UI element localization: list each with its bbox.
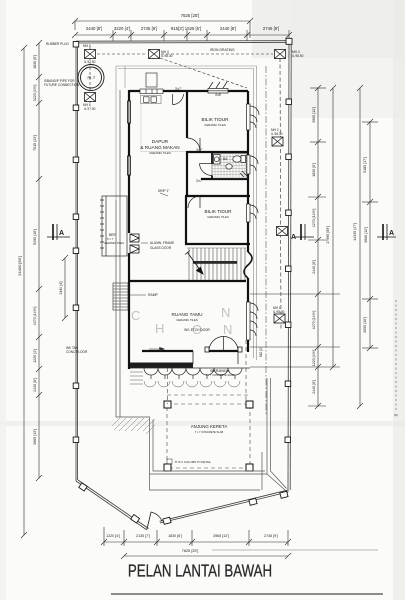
svg-text:5' x 7': 5' x 7' [107,237,114,241]
svg-text:BILIK TIDUR: BILIK TIDUR [204,209,232,214]
bed2 top wall [185,195,250,197]
svg-text:24400 [80']: 24400 [80'] [17,256,22,276]
svg-text:2440 [8']: 2440 [8'] [312,260,316,274]
svg-text:4'x8': 4'x8' [215,93,222,97]
svg-text:1220 [4']: 1220 [4'] [33,349,37,363]
glass door [130,234,139,253]
ruang tamu right windows [247,302,259,340]
svg-text:3965 [13']: 3965 [13'] [213,534,229,538]
svg-text:CERAMIC TILES: CERAMIC TILES [204,123,226,127]
svg-text:A: A [59,230,64,237]
svg-text:2135 [7']: 2135 [7'] [136,534,150,538]
svg-text:915[3'] 1525 [5']: 915[3'] 1525 [5'] [171,26,201,31]
bathroom tiled floor [212,154,247,179]
bed1 right windows [247,104,260,130]
svg-text:GLASS DOOR: GLASS DOOR [150,246,172,250]
curved niche right wall [244,252,252,278]
svg-text:BER: BER [109,233,116,237]
hatch paving [112,418,155,434]
svg-text:CERAMIC TILES: CERAMIC TILES [207,215,229,219]
sewer dash line left [90,47,273,103]
svg-text:3965 [13']: 3965 [13'] [33,429,37,445]
left dim line 24400 [21,45,27,538]
svg-text:2440 [8']: 2440 [8'] [220,26,236,31]
svg-text:A: A [291,234,296,241]
bottom dim line 1 [101,527,291,546]
apron paving outline [116,90,287,490]
manhole MH2 [272,137,283,146]
gate arc bottom [147,512,162,529]
svg-text:IL 98.30: IL 98.30 [271,132,283,136]
apron dash-dot line [265,66,267,415]
svg-text:CONC FLOOR: CONC FLOOR [66,350,88,354]
scan band mid [0,421,405,426]
svg-text:3'x7': 3'x7' [196,179,203,183]
porch BER left [100,196,127,256]
front wall ruang tamu [142,350,193,352]
eave overhang outline [116,66,257,360]
top wall [129,90,248,92]
stair arrow [185,251,203,275]
junction JH.2 [78,65,104,91]
svg-text:7 x 7 CONCRETE SLAB: 7 x 7 CONCRETE SLAB [195,430,224,434]
bath door [200,164,213,176]
svg-text:& RUANG MAKAN: & RUANG MAKAN [140,145,179,150]
section mark A right [295,224,314,240]
svg-text:2440 [4']: 2440 [4'] [59,281,63,294]
manhole MH4 [149,50,160,59]
porch wall slab [130,363,193,369]
svg-text:3050 [10']: 3050 [10'] [363,317,367,333]
beranda slab [130,351,250,368]
right dim line 4 [362,119,378,351]
svg-text:C: C [131,308,140,323]
svg-text:4270 [14½']: 4270 [14½'] [312,311,316,330]
scan wash left strip [0,0,6,600]
bath bottom wall [201,178,248,180]
svg-text:2745 [9']: 2745 [9'] [263,26,279,31]
bed2 right windows [247,204,259,222]
gate posts [131,515,171,525]
manhole MH6 [85,93,96,102]
svg-text:3'x7': 3'x7' [175,87,182,91]
right boundary fence [160,41,292,523]
bed2 door [188,196,200,208]
svg-text:RUANG TAMU: RUANG TAMU [171,312,203,317]
top dim line row2 [72,30,292,41]
svg-text:JH. 2: JH. 2 [87,76,95,80]
stairs [187,248,246,280]
watermark letters [131,305,232,337]
svg-text:N: N [221,305,230,320]
svg-text:W/1 ETCH DOOR: W/1 ETCH DOOR [184,328,210,332]
svg-text:610 [2']: 610 [2'] [259,347,263,357]
svg-text:PELAN LANTAI BAWAH: PELAN LANTAI BAWAH [128,562,272,581]
svg-text:5490 [18']: 5490 [18'] [33,229,37,245]
svg-text:3965 [13']: 3965 [13'] [312,107,316,123]
svg-text:1220 [4½']: 1220 [4½'] [312,350,316,367]
manhole MH2a [277,227,288,236]
bath top wall [187,151,248,153]
svg-text:IRON GRATING: IRON GRATING [210,48,235,52]
toilet [233,156,246,163]
manhole MH5 [85,50,96,59]
basin [214,155,233,170]
anjung columns [164,401,253,471]
svg-text:7625 [25']: 7625 [25'] [181,13,200,18]
svg-text:5185 [17']: 5185 [17'] [363,157,367,173]
svg-text:4270 [14½']: 4270 [14½'] [33,307,37,326]
column note [167,459,172,464]
svg-text:2440 [8']: 2440 [8'] [33,378,37,392]
svg-text:DRIP 1": DRIP 1" [158,189,169,193]
top dim line 7625 [72,18,253,38]
svg-text:1220 [4']: 1220 [4'] [106,534,120,538]
far right dashed line [395,300,397,410]
svg-text:7625 [25']: 7625 [25'] [182,549,199,553]
svg-text:MH 5: MH 5 [83,44,91,48]
kitchen door swing [173,94,184,105]
section mark A left [47,224,70,240]
bath right window [247,155,259,174]
left dim line segments [36,40,42,481]
svg-text:IL 98.30: IL 98.30 [161,54,173,58]
ramp [113,283,128,310]
svg-text:3'x7': 3'x7' [196,148,203,152]
svg-text:17995 [59']: 17995 [59'] [326,226,330,244]
svg-text:2745 [9']: 2745 [9'] [141,26,157,31]
right dim line 2 [330,85,336,370]
bottom dim line 2 [121,553,291,559]
title underline [111,593,383,595]
stair rail [193,261,237,264]
svg-text:IL 98.50: IL 98.50 [292,54,304,58]
bed2 left wall [185,196,187,244]
left wall lower [128,253,130,369]
left wall upper [128,90,130,233]
stair bottom wall [130,280,246,282]
bath wall separating [211,153,213,164]
svg-text:(6): (6) [394,413,398,417]
svg-text:3660 [12']: 3660 [12'] [364,227,368,243]
svg-text:FUTURE CONNECTION: FUTURE CONNECTION [44,83,80,87]
kitchen appliances [140,73,163,104]
svg-text:IL 97.50: IL 97.50 [84,60,96,64]
right dim line 1 [250,85,340,409]
bed2 bottom wall [185,243,250,245]
section mark A far right [377,224,396,240]
kitchen window left wall [128,101,131,175]
svg-text:7 x 7 CONCRETE SLAB: 7 x 7 CONCRETE SLAB [206,373,235,377]
right dim line 3 [357,85,363,409]
top dim labels [86,13,279,31]
svg-text:IL 97.00: IL 97.00 [84,107,96,111]
scan wash right of fence [292,0,405,118]
interior arrow kitchen->tamu [149,347,165,351]
svg-text:1830 [6']: 1830 [6'] [168,534,182,538]
fence posts left [73,42,87,492]
svg-text:1830 [6']: 1830 [6'] [33,55,37,69]
svg-text:RAMP: RAMP [148,293,159,297]
svg-text:H: H [155,321,164,336]
svg-text:4270 [14½']: 4270 [14½'] [312,209,316,228]
svg-text:2440 [8']: 2440 [8'] [86,26,102,31]
svg-text:RUBBER PLUG: RUBBER PLUG [46,42,69,46]
bed1/kitchen door arc [187,138,200,151]
bottom rule thin [212,549,378,551]
left boundary fence [76,41,289,530]
manhole MH3 [275,50,286,59]
short dim line left [62,255,68,321]
svg-text:3220 [4½']: 3220 [4½'] [33,85,37,102]
steps below beranda [144,381,240,387]
beranda-anjung dashes [168,340,247,404]
right wall [247,91,249,104]
svg-text:BILIK TIDUR: BILIK TIDUR [201,117,229,122]
svg-text:14335 [47']: 14335 [47'] [353,223,357,241]
svg-text:2440 [8']: 2440 [8'] [312,380,316,394]
svg-text:N: N [223,322,232,337]
sewer dash line right [280,58,281,330]
svg-text:CERAMIC TILES: CERAMIC TILES [104,241,124,245]
svg-text:IL 98.00: IL 98.00 [273,310,285,314]
svg-text:3220 [4']: 3220 [4'] [114,26,130,31]
scan wash right column [393,0,405,600]
front double door [205,337,242,353]
svg-text:CERAMIC TILES: CERAMIC TILES [149,151,171,155]
svg-text:ANJUNG KERETA: ANJUNG KERETA [191,424,228,429]
interior wall kitchen/bed1 [186,91,188,138]
svg-text:DAPUR: DAPUR [152,139,169,144]
manhole MH1 [274,314,285,323]
bottom dim labels [106,534,278,538]
svg-text:2745 [9']: 2745 [9'] [264,534,278,538]
svg-text:ALUMN. FRAME: ALUMN. FRAME [150,241,174,245]
svg-text:CERAMIC TILES: CERAMIC TILES [176,318,198,322]
porch side steps [130,372,143,384]
beranda arches [144,368,242,379]
svg-text:1830 [6']: 1830 [6'] [312,163,316,177]
scan wash top-right [252,0,405,58]
shower corner [240,171,247,177]
anjung kereta slab dashed [167,395,250,468]
svg-text:7615 [23']: 7615 [23'] [33,135,37,151]
svg-text:8" R.C COLUMN TO DETAIL: 8" R.C COLUMN TO DETAIL [175,460,211,464]
svg-text:BERANDA: BERANDA [210,368,230,373]
svg-text:A: A [389,230,394,237]
fence posts right [249,38,292,505]
bed1 top window [208,82,228,93]
